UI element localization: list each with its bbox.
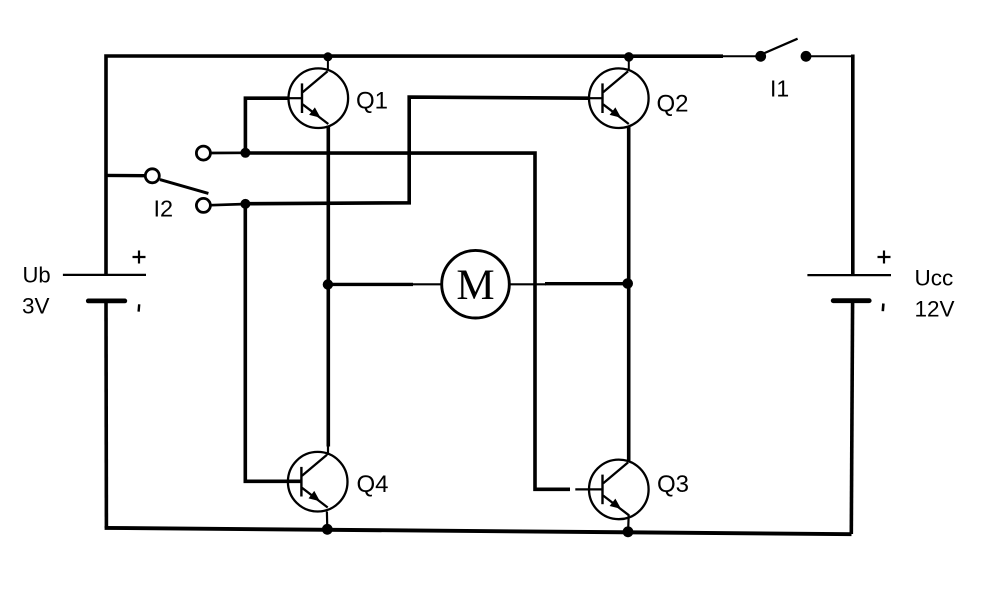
- Q4 emitter arrow: [309, 491, 323, 505]
- wire: bottom rail: [105, 528, 852, 534]
- node: junction upper throw / Q1-Q3 base net: [240, 148, 250, 158]
- switch I1 lever: [764, 39, 798, 54]
- svg-text:Q3: Q3: [657, 471, 689, 498]
- Ucc positive plate: [807, 274, 891, 276]
- wire: Q4 base net (junction down, to Q4 base): [245, 204, 300, 481]
- wire: Q3 emitter lead to bottom rail: [627, 515, 630, 532]
- wire: left vertical + top rail (Ub+ to I1 left): [106, 56, 723, 275]
- svg-text:Q1: Q1: [356, 88, 388, 115]
- Ucc plus sign: [878, 251, 891, 264]
- Q3 base lead: [575, 488, 602, 490]
- Q2 base bar: [601, 83, 603, 113]
- node: top rail / Q1 collector: [323, 52, 332, 61]
- motor circle: [442, 250, 510, 318]
- wire: Q4 emitter lead to bottom rail: [326, 512, 329, 530]
- svg-text:Ub: Ub: [23, 263, 51, 288]
- battery Ub: [22, 251, 146, 319]
- wire: Q2 emitter to motor-right to Q3 collector: [627, 127, 631, 462]
- switch I2 lever: [160, 180, 209, 194]
- Ub positive plate: [63, 274, 146, 276]
- wire: motor right lead: [509, 283, 546, 285]
- node: junction lower throw / Q2-Q4 base net: [240, 199, 250, 209]
- Q1 base bar: [301, 83, 303, 113]
- Ub negative plate: [88, 298, 125, 303]
- wire: Q4 collector thin lead: [327, 444, 329, 455]
- wire: Q2 collector lead: [628, 57, 630, 70]
- Q3 emitter stroke: [603, 496, 629, 516]
- Q4 base lead: [288, 481, 302, 483]
- node: I1 left contact: [755, 51, 766, 62]
- battery Ucc: [807, 251, 954, 322]
- node: bottom rail / Q4 emitter: [322, 524, 333, 535]
- svg-text:I2: I2: [154, 196, 174, 222]
- Q1 circle: [289, 68, 349, 128]
- wire: I2 pole lead: [105, 174, 145, 178]
- switch I2: [105, 146, 250, 221]
- wire: motor left lead: [328, 283, 413, 286]
- Q4 base bar: [300, 467, 302, 497]
- Ub plus sign: [133, 251, 146, 264]
- svg-text:Q4: Q4: [357, 471, 389, 498]
- Q4 circle: [288, 452, 348, 512]
- wire: Q2 base net (junction right, up at x=409, to Q2 base): [245, 97, 588, 204]
- transistor Q3: [575, 460, 648, 520]
- svg-text:3V: 3V: [22, 294, 50, 319]
- Q4 collector stroke: [302, 455, 327, 476]
- Q1 base lead: [288, 97, 302, 99]
- node: top rail / Q2 collector: [624, 52, 634, 62]
- Ucc minus tick: [881, 304, 884, 312]
- Q2 collector stroke: [603, 71, 628, 92]
- svg-text:Ucc: Ucc: [915, 265, 954, 290]
- node: motor right terminal: [622, 278, 633, 289]
- Q4 emitter stroke: [302, 488, 328, 508]
- wire: Q1 collector lead: [327, 57, 329, 71]
- svg-text:M: M: [456, 262, 494, 309]
- wire: Q1 base net (junction up to Q1 base): [245, 98, 289, 157]
- transistor Q1: [288, 68, 348, 128]
- Q3 circle: [589, 460, 649, 520]
- Q1 emitter stroke: [303, 104, 329, 124]
- motor M1: [442, 250, 510, 318]
- svg-text:I1: I1: [770, 76, 789, 102]
- wire: I1 left lead: [722, 55, 759, 57]
- wire: upper throw to junction: [211, 151, 247, 154]
- transistor Q2: [589, 68, 649, 128]
- svg-text:12V: 12V: [915, 297, 955, 322]
- wire: I1 right lead: [806, 55, 853, 57]
- Ucc negative plate: [833, 298, 869, 303]
- wire: lower throw to junction: [211, 204, 247, 205]
- svg-text:Q2: Q2: [657, 90, 689, 117]
- wire: Q3 base net (junction right, down at x=535, to Q3 base): [245, 153, 570, 489]
- Q1 collector stroke: [303, 71, 328, 92]
- switch I1: [722, 39, 853, 102]
- node: I1 right contact: [801, 51, 812, 62]
- Q2 circle: [589, 68, 649, 128]
- Q3 collector stroke: [603, 462, 628, 483]
- node: bottom rail / Q3 emitter: [623, 526, 634, 537]
- Q1 emitter arrow: [309, 107, 323, 121]
- transistor Q4: [288, 452, 348, 512]
- node: I2 pole contact: [145, 169, 159, 183]
- Q2 emitter stroke: [603, 104, 629, 124]
- Q3 base bar: [601, 475, 603, 505]
- Q2 base lead: [589, 97, 603, 99]
- node: motor left terminal: [323, 279, 333, 289]
- wire: left vertical lower (Ub- to bottom rail): [104, 301, 108, 528]
- node: I2 lower throw contact: [196, 198, 210, 212]
- Q3 emitter arrow: [610, 499, 624, 513]
- Ub minus tick: [137, 304, 140, 311]
- node: I2 upper throw contact: [196, 146, 210, 160]
- wire: Q1 emitter to motor-left to Q4 collector: [326, 126, 330, 447]
- wire: right vertical lower (Ucc- to bottom rail): [851, 301, 852, 534]
- Q2 emitter arrow: [610, 107, 624, 121]
- wire: right vertical upper (I1 right to Ucc+): [851, 55, 855, 276]
